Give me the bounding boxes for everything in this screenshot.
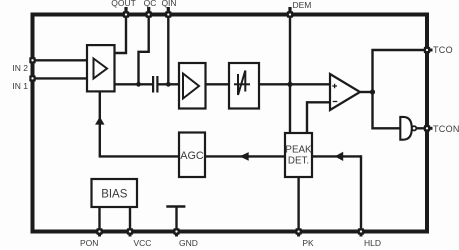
wire limiter to comparator + input (259, 83, 330, 85)
limiter diodes D1 (229, 63, 259, 109)
pin stub QOUT (124, 7, 127, 17)
svg-text:PK: PK (302, 238, 314, 248)
PEAK DET block (285, 133, 312, 177)
pin stub TCO (425, 49, 433, 52)
ground symbol (166, 207, 185, 237)
svg-text:QOUT: QOUT (111, 0, 136, 8)
wire BIAS to VCC (129, 207, 131, 237)
svg-text:DEM: DEM (293, 0, 312, 10)
pin IN1 (29, 75, 35, 81)
gate U2 (400, 117, 416, 140)
pin stub QIN (167, 7, 170, 17)
svg-text:BIAS: BIAS (101, 188, 128, 200)
pin stub DEM (288, 7, 291, 17)
pin IN2 (29, 57, 35, 63)
wire comparator output node (360, 91, 373, 93)
pin HLD (358, 228, 364, 234)
wire node to gate input (373, 92, 401, 128)
arrow into PEAK DET (335, 152, 344, 161)
pin TCO (424, 47, 430, 53)
pin QOUT (123, 11, 129, 17)
amplifier A1 (87, 45, 115, 91)
wire QC to signal node (139, 7, 149, 84)
svg-text:TCON: TCON (433, 124, 459, 134)
wire QOUT to A1 output (115, 7, 127, 53)
IC boundary box (33, 15, 428, 232)
arrow into A1 (gain control) (95, 117, 104, 125)
pin stub PK (297, 230, 300, 237)
wire A2 to limiter (206, 83, 230, 85)
BIAS block (92, 179, 138, 207)
svg-text:VCC: VCC (134, 238, 152, 248)
junction DEM node (287, 82, 292, 87)
wire IN1 (33, 77, 88, 79)
pin stub QC (147, 7, 150, 17)
pin QC (146, 11, 152, 17)
wire HLD to PEAK DET (312, 155, 361, 157)
wire A1 output to capacitor (115, 83, 153, 85)
svg-text:DET.: DET. (288, 155, 309, 166)
svg-text:QC: QC (144, 0, 157, 8)
pin stub VCC (129, 230, 132, 237)
wire PEAK DET to AGC (205, 155, 285, 157)
svg-text:IN 2: IN 2 (12, 63, 28, 73)
wire BIAS to PON (98, 207, 100, 237)
wire DEM vertical (289, 7, 291, 133)
pin GND (173, 228, 179, 234)
pin stub TCON (425, 127, 433, 130)
pin DEM (287, 11, 293, 17)
wire HLD vertical (360, 155, 362, 236)
svg-text:IN 1: IN 1 (12, 81, 28, 91)
arrow into AGC (240, 152, 249, 161)
pin VCC (127, 228, 133, 234)
pin PON (96, 228, 102, 234)
comparator U1 (330, 74, 360, 110)
wire AGC to A1 gain control (100, 92, 179, 157)
junction QIN node (166, 82, 171, 87)
svg-text:PEAK: PEAK (285, 144, 312, 155)
svg-text:TCO: TCO (433, 45, 453, 55)
pin PK (295, 228, 301, 234)
wire PEAK DET to PK (297, 177, 299, 237)
capacitor C1 (152, 76, 159, 93)
pin QIN (165, 11, 171, 17)
pin TCON (424, 125, 430, 131)
wire QIN to signal node (167, 7, 169, 84)
wire capacitor to A2 (159, 83, 180, 85)
svg-text:QIN: QIN (161, 0, 176, 8)
amplifier A2 (179, 63, 206, 109)
junction QC node (136, 82, 141, 87)
svg-text:HLD: HLD (364, 238, 381, 248)
pin stub GND (175, 230, 178, 237)
svg-text:PON: PON (80, 238, 98, 248)
wire gate output to TCON (416, 127, 432, 129)
pin stub HLD (360, 230, 363, 237)
wire IN2 (33, 59, 88, 61)
svg-text:GND: GND (179, 238, 198, 248)
AGC block (179, 133, 205, 178)
pin stub PON (98, 230, 101, 237)
svg-text:AGC: AGC (180, 150, 204, 162)
junction comparator output node (370, 89, 375, 94)
wire node to TCO (373, 50, 433, 92)
wire comparator - input from PEAK DET (307, 102, 330, 133)
